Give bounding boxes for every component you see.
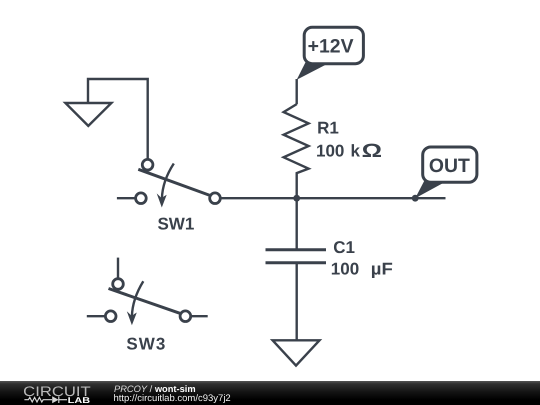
svg-text:C1: C1 [333,238,355,257]
SW3 actuation arrow [132,281,143,316]
wire GND1 to SW1 common [88,79,148,160]
svg-text:LAB: LAB [68,395,90,405]
SW1 arrowhead [157,193,167,207]
+12V supply flag [297,27,364,80]
switch SW1 [117,159,220,207]
+12V flag box [304,27,363,63]
svg-text:100: 100 [316,142,344,161]
SW3 arrowhead [127,311,137,325]
footer title text [114,384,196,394]
wire SW3 left stub [87,315,106,317]
switch SW3 [87,258,208,326]
wire node to C1 top plate [296,198,298,250]
OUT flag pointer [415,180,448,198]
wire +12V to resistor [296,79,298,104]
C1 top plate [266,248,327,251]
wire C1 bottom plate to GND2 [296,263,298,341]
svg-text:+12V: +12V [308,36,354,58]
svg-text:Ω: Ω [362,141,382,162]
svg-text:k: k [351,142,361,161]
ground GND1 (top-left) [65,79,147,160]
svg-text:µF: µF [371,260,393,279]
ground GND2 (below C1) [273,340,320,365]
wire main horizontal net [220,197,445,199]
SW1 terminal right [210,193,221,204]
OUT flag box [423,147,477,182]
svg-text:R1: R1 [317,119,339,138]
+12V flag pointer [297,62,331,80]
svg-text:100: 100 [331,260,359,279]
SW1 terminal top [142,159,153,170]
wire SW3 top stub [117,258,119,279]
svg-text:SW1: SW1 [157,215,194,234]
SW1 terminal left [136,193,147,204]
SW1 blade [138,169,210,195]
SW3 terminal top [113,279,124,290]
footer bar [0,381,540,405]
resistor R1 [284,104,309,198]
SW3 terminal right [180,311,191,322]
SW3 terminal left [105,311,116,322]
node OUT dot [412,195,419,202]
C1 bottom plate [266,261,327,264]
svg-text:OUT: OUT [429,155,470,177]
wire SW3 right stub [191,315,208,317]
GND1 triangle [65,103,111,126]
capacitor C1 [266,198,327,340]
wire SW1 left stub [117,197,136,199]
SW3 blade [109,289,181,314]
OUT flag (node OUT) [415,147,477,198]
node junction dot at R1/C1 [293,195,300,202]
SW1 actuation arrow [162,164,174,199]
CircuitLab logo [0,381,110,405]
svg-text:SW3: SW3 [126,334,166,353]
footer url text [114,393,231,404]
